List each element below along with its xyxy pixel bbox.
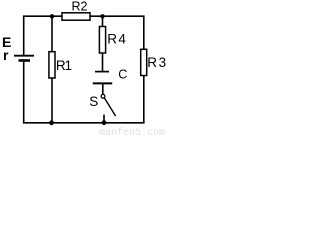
svg-text:R2: R2 (72, 0, 88, 14)
svg-text:S: S (89, 94, 98, 109)
svg-text:r: r (3, 47, 9, 63)
svg-text:C: C (118, 68, 127, 82)
svg-text:R1: R1 (56, 58, 72, 73)
svg-text:manfen5.com: manfen5.com (99, 127, 165, 137)
svg-text:R3: R3 (147, 55, 167, 70)
svg-text:R4: R4 (107, 32, 127, 47)
